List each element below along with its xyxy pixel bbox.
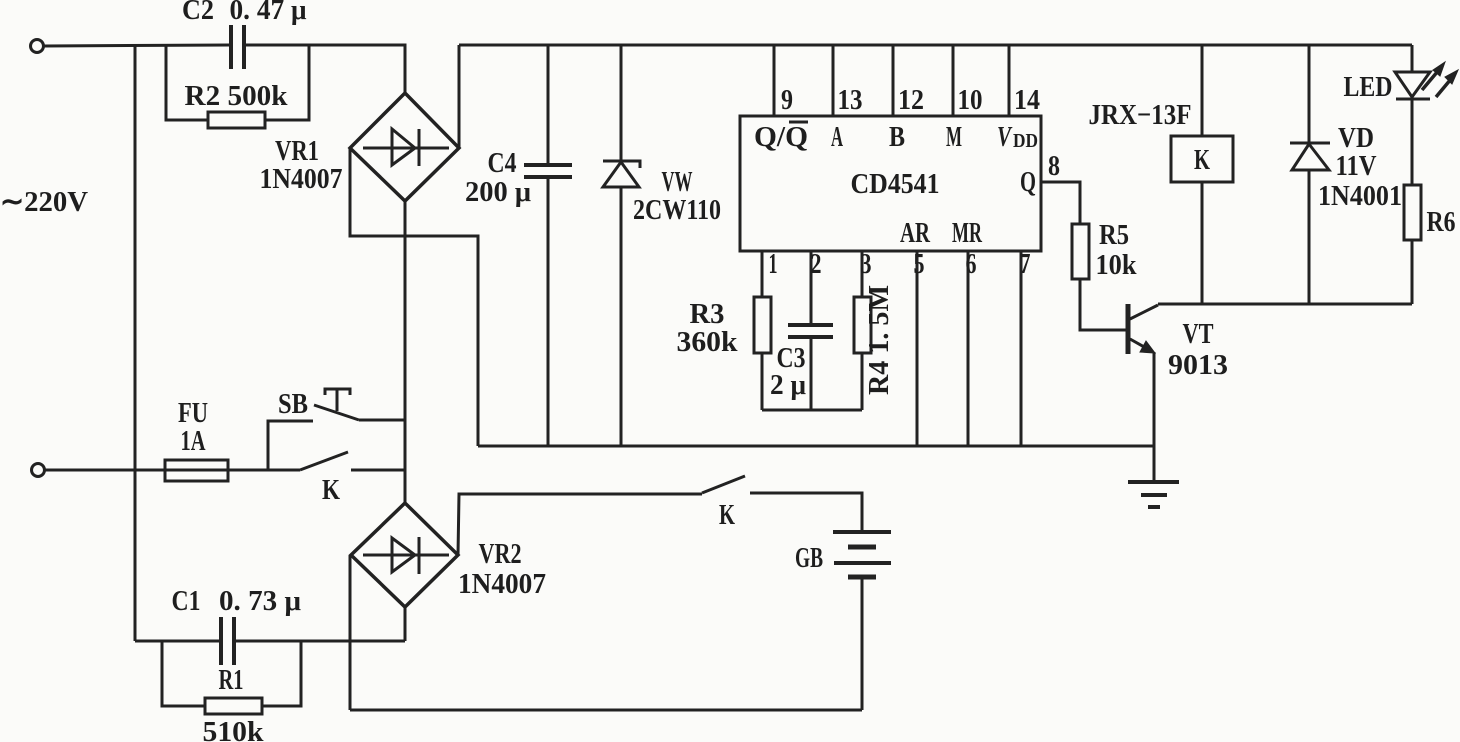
wire: VR2 DC- left vertex down to bottom return wire [349,555,352,710]
diode VD 1N4001 (bar + triangle up) [1290,143,1330,170]
svg-text:R1: R1 [219,664,244,696]
svg-text:510k: 510k [203,716,265,742]
wire: VR1 DC- left vertex down, right, down to common bus [350,148,478,446]
svg-text:MR: MR [952,217,983,249]
svg-text:5: 5 [914,248,925,280]
wire: pin 5 lead to bus [916,251,919,446]
svg-text:3: 3 [861,248,872,280]
wire: C3 bottom lead [810,338,813,410]
terminal T1 (AC input top) [31,40,44,53]
wire: relay top lead from rail [1201,45,1204,136]
wire: R4 bottom lead [861,353,864,410]
svg-text:R6: R6 [1427,206,1456,238]
wire: LED cathode down to R6 [1411,99,1414,185]
wire: R6 bottom lead to collector rail [1411,240,1414,304]
svg-text:14: 14 [1014,84,1040,116]
svg-text:R4 1. 5M: R4 1. 5M [863,285,895,395]
capacitor C1 (vertical plates) [221,617,234,665]
LED (triangle down + bar) [1395,72,1430,99]
svg-text:6: 6 [966,248,977,280]
fuse FU 1A (box over wire) [165,460,228,481]
svg-text:9: 9 [781,84,793,116]
IC U1 CD4541 (body) [740,116,1041,251]
wire: pin 14 lead [1008,45,1011,116]
wire: pin 1 lead down to R3 [761,251,764,297]
wire: K2 right contact to battery [750,493,862,531]
svg-text:JRX−13F: JRX−13F [1089,99,1192,131]
wire: VR2 DC+ right vertex up and right to K2 [458,494,702,555]
wire: pin 2 lead down to C3 [810,251,813,324]
zener diode VW 2CW110 (cathode bar with hook + triangle) [603,161,640,187]
wire: C1 line left segment [135,640,219,643]
transistor VT collector [1130,305,1158,319]
battery GB plates [833,532,891,563]
svg-text:CD4541: CD4541 [851,168,940,200]
VR2 internal diode [363,537,449,574]
svg-text:V: V [997,121,1013,153]
resistor R2 (box) [208,112,265,128]
svg-text:11V: 11V [1336,150,1377,182]
svg-text:360k: 360k [677,326,739,358]
wire: VR1 AC bottom vertex down to SB/K junction and VR2 top vertex [404,201,407,503]
transistor VT emitter with arrow [1130,339,1146,348]
resistor R6 (box) [1404,185,1421,240]
wire: LED top lead from rail corner [1411,45,1414,71]
wire: VD top lead from rail [1308,45,1311,142]
svg-text:DD: DD [1013,130,1038,152]
ground [1128,482,1179,507]
svg-text:VT: VT [1183,318,1214,350]
svg-text:Q: Q [1020,166,1036,198]
wire: pin 3 lead down to R4 [861,251,864,297]
common bus (DC- / ground rail) [478,445,1154,448]
svg-text:8: 8 [1048,150,1060,182]
switch K blade [300,452,348,470]
resistor R1 (box) [205,698,262,714]
wire: pin 10 lead [952,45,955,116]
switch K (main, left contact) [268,469,300,472]
wire: pin 12 lead [892,45,895,116]
svg-text:R5: R5 [1099,219,1129,251]
svg-text:2: 2 [811,248,822,280]
wire: pin 8 output stub and lead to R5 [1041,182,1080,224]
svg-text:AR: AR [900,217,931,249]
wire: R5 bottom lead to VT base [1080,279,1127,330]
wire: SB branch riser and left contact [268,421,313,470]
wire: bottom AC line through fuse [45,469,268,472]
svg-text:200 μ: 200 μ [465,176,532,208]
svg-text:C1: C1 [172,585,201,617]
svg-text:10k: 10k [1096,249,1138,281]
svg-text:K: K [322,474,340,506]
wire: oscillator common bottom wire R3-C3-R4 [762,409,862,412]
capacitor C4 (horizontal plates) [524,165,572,177]
wire: bottom return wire [350,709,862,712]
pushbutton SB actuator [325,389,350,411]
svg-text:GB: GB [795,542,823,574]
bridge rectifier VR1 (diamond) [350,93,459,201]
svg-text:A: A [831,121,843,153]
resistor R5 (box) [1072,224,1089,279]
wire: collector rail to R6 bottom [1158,303,1412,306]
svg-text:2CW110: 2CW110 [633,194,721,226]
wire: pin 7 lead to bus [1020,251,1023,446]
svg-text:K: K [719,499,735,531]
svg-text:M: M [946,121,962,153]
wire: emitter down to ground [1153,352,1156,482]
wire: R3 bottom lead [761,353,764,410]
svg-text:9013: 9013 [1168,349,1228,381]
svg-text:1N4001: 1N4001 [1318,180,1402,212]
svg-text:∼220V: ∼220V [0,186,88,218]
svg-text:Q/Q: Q/Q [754,121,808,153]
svg-text:10: 10 [958,84,983,116]
wire: VR2 AC bottom vertex down to C1 line [404,607,407,641]
switch K2 blade (battery branch) [702,476,745,493]
wire: relay bottom lead to collector rail [1201,182,1204,304]
svg-text:2 μ: 2 μ [770,369,807,401]
bridge rectifier VR2 (diamond) [351,503,458,607]
svg-text:C2: C2 [182,0,214,26]
transistor VT 9013 base bar [1126,304,1131,354]
svg-text:12: 12 [898,84,924,116]
wire: top rail left segment from T1 to C2 left plate [44,45,229,46]
svg-text:1N4007: 1N4007 [260,163,343,195]
wire: top rail from C2 right plate to VR1 top corner, then down to VR1 AC vertex [246,45,405,93]
overbar of second Q in Q/Q [789,121,808,124]
svg-text:SB: SB [278,388,308,420]
wire: battery negative down to bottom return wire [861,579,864,710]
wire: C1 line right segment to VR2 [236,640,405,643]
svg-text:0. 47 μ: 0. 47 μ [230,0,308,26]
wire: VD bottom lead to collector rail [1308,170,1311,304]
svg-text:K: K [1194,144,1210,176]
svg-text:1N4007: 1N4007 [458,568,546,600]
terminal T2 (AC input bottom) [32,464,45,477]
svg-text:1A: 1A [181,425,206,457]
wire: left AC rail down from top rail [134,45,137,641]
wire: C4 bottom lead to bus [547,178,550,446]
wire: VR1 DC+ right vertex up to top rail [458,45,461,148]
svg-text:1: 1 [769,248,778,280]
LED emission arrows [1422,71,1438,90]
wire: top rail right segment (DC+ rail to LED) [459,44,1412,47]
svg-text:13: 13 [838,84,863,116]
wire: R1 parallel branch frame [162,641,301,706]
relay K JRX-13F (coil box) [1171,136,1233,182]
wire: K right contact to AC node [351,469,405,472]
wire: pin 9 lead [773,45,776,116]
svg-text:VR2: VR2 [479,538,522,570]
wire: VW top lead [620,45,623,160]
svg-text:C4: C4 [488,147,517,179]
resistor R4 (box) [854,297,871,353]
wire: pin 6 lead to bus [967,251,970,446]
svg-text:LED: LED [1344,71,1393,103]
svg-text:7: 7 [1020,248,1031,280]
svg-text:R2 500k: R2 500k [185,80,289,112]
wire: pin 13 lead [832,45,835,116]
VR1 internal diode [363,129,449,166]
wire: R2 parallel branch frame [166,45,309,120]
wire: C4 top lead [547,45,550,164]
svg-text:0. 73 μ: 0. 73 μ [219,585,302,617]
capacitor C2 (plates in series on rail) [231,25,244,69]
svg-text:B: B [889,121,905,153]
wire: SB right contact to AC node [359,419,405,422]
capacitor C3 (horizontal plates) [788,325,833,337]
wire: VW bottom lead to bus [620,187,623,446]
resistor R3 (box) [754,297,771,353]
pushbutton SB blade [314,405,359,420]
